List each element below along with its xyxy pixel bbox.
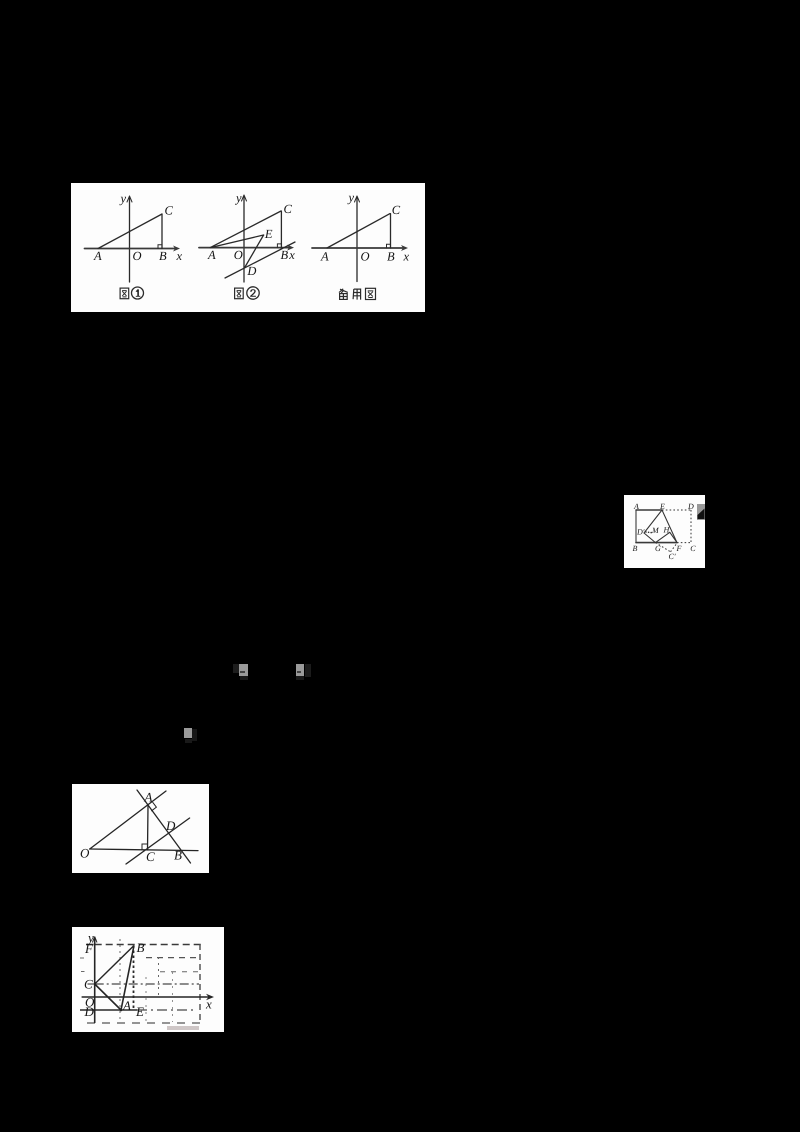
segment E-D' [644, 510, 662, 533]
svg-text:B: B [633, 544, 638, 553]
svg-text:B: B [174, 848, 182, 863]
svg-text:x: x [288, 248, 295, 262]
svg-text:y: y [347, 191, 355, 205]
svg-text:D′: D′ [636, 528, 645, 537]
fig3 segment CB [390, 214, 392, 248]
triangle CB [95, 946, 134, 985]
svg-text:C: C [284, 202, 293, 216]
svg-text:O: O [234, 248, 243, 262]
gray watermark bar [167, 1026, 199, 1030]
vertical A-C [147, 806, 150, 850]
fig2 segment AE [210, 235, 263, 248]
svg-text:x: x [176, 249, 183, 263]
svg-text:D: D [84, 1004, 95, 1019]
fig3 right angle at B [387, 244, 391, 248]
dashed DC [690, 510, 692, 543]
edge AE (top, solid) [636, 509, 662, 511]
svg-text:A: A [207, 248, 216, 262]
svg-text:y: y [234, 191, 242, 205]
triangle BA [121, 946, 134, 1011]
svg-text:O: O [133, 249, 142, 263]
dashed G-C' [656, 543, 671, 552]
fig2 segment CB [280, 211, 282, 248]
dots near M [645, 531, 647, 533]
svg-text:B: B [159, 249, 167, 263]
svg-text:y: y [119, 192, 127, 206]
fig2 caption 图② [235, 288, 244, 299]
svg-text:D: D [246, 264, 256, 278]
svg-text:A: A [93, 249, 102, 263]
svg-text:O: O [80, 845, 90, 860]
fig1 y-axis [129, 198, 131, 282]
fig2 segment AC [210, 211, 281, 248]
segment EF [662, 510, 677, 543]
svg-text:A: A [633, 502, 639, 511]
fig3 caption 备用图 [339, 289, 348, 300]
segment D'-G [644, 533, 656, 543]
svg-text:A: A [122, 998, 131, 1013]
dashed vertical B-E [133, 946, 135, 1011]
svg-text:M: M [651, 526, 660, 535]
fig3 segment AC [327, 214, 390, 248]
grid: vertical col x48 [119, 939, 121, 1022]
svg-text:G: G [655, 544, 661, 553]
fig2 x-axis [199, 247, 291, 249]
svg-text:A: A [144, 790, 153, 805]
figure box 2: rectangle fold diagram [624, 495, 705, 568]
fig3 y-axis [356, 198, 358, 282]
fig1 right angle at B [158, 245, 162, 249]
grid: left margin specks [80, 958, 85, 972]
triangle CA [95, 984, 121, 1010]
fig1 segment AC [98, 214, 162, 249]
svg-text:D: D [687, 502, 694, 511]
grid: row y44 [160, 971, 200, 973]
svg-text:B: B [137, 940, 145, 955]
segment GH [656, 532, 670, 542]
grid: bottom row [87, 1022, 200, 1024]
svg-text:C: C [690, 544, 696, 553]
horizontal line O-C-B [90, 849, 198, 851]
svg-text:F: F [84, 941, 94, 956]
grid: C row left tick [88, 983, 95, 985]
small gray fraction patch 3 [184, 728, 192, 738]
fig1 caption 图① [120, 288, 129, 299]
svg-text:A: A [320, 250, 329, 264]
line through A, D, B [137, 790, 191, 863]
fig2 segment ED [245, 235, 264, 267]
grid: D row [80, 1009, 137, 1011]
fig1 segment CB [161, 214, 163, 249]
grid: vertical col x100 [172, 972, 174, 1022]
grid: vertical col x86 [158, 957, 160, 997]
line through C and D [126, 818, 190, 864]
edge AB (left, solid) [635, 510, 637, 543]
figure box 4: grid coordinate diagram [72, 927, 224, 1032]
svg-text:C′: C′ [669, 552, 676, 561]
segment HF [670, 532, 677, 542]
small gray fraction patch 1 [239, 664, 248, 676]
grid: row y30 [146, 957, 200, 959]
svg-text:B: B [387, 250, 395, 264]
svg-text:x: x [205, 997, 212, 1012]
figure box 1: three coordinate diagrams [71, 183, 425, 312]
svg-text:C: C [84, 977, 93, 992]
fig2 right angle at B [277, 244, 281, 248]
svg-text:F: F [676, 544, 682, 553]
svg-text:C: C [392, 203, 401, 217]
svg-text:x: x [403, 250, 410, 264]
point dot at A [120, 1009, 123, 1012]
grid: F row left tick [86, 944, 94, 946]
small gray fraction patch 2 [296, 664, 304, 676]
svg-text:O: O [361, 250, 370, 264]
dashed ED [662, 509, 691, 511]
y-axis [94, 938, 96, 1023]
grid: C row dash-dot [95, 983, 199, 985]
figure box 3: O A C D B diagram [72, 784, 209, 873]
grid: F row dashed [95, 944, 201, 946]
svg-text:B: B [281, 248, 289, 262]
fig1 x-axis [85, 248, 178, 250]
fig3 x-axis [312, 247, 405, 249]
fig2 line through D and B [225, 242, 295, 278]
svg-text:E: E [659, 502, 665, 511]
svg-text:C: C [146, 849, 155, 864]
svg-text:E: E [264, 227, 273, 241]
fig2 y-axis [243, 197, 245, 282]
right angle at C [142, 844, 148, 850]
x-axis [82, 996, 211, 998]
gray icon at right edge of box 2 [697, 504, 705, 520]
dashed FC [677, 542, 691, 544]
edge BF (bottom, solid) [636, 542, 677, 544]
right angle at A [152, 802, 157, 810]
svg-text:E: E [135, 1004, 144, 1019]
dashed C'-F [671, 543, 678, 552]
line O-A extended [90, 791, 166, 849]
svg-text:D: D [165, 818, 176, 833]
grid: vertical col x74 [145, 977, 147, 1022]
grid: vertical col right edge [199, 944, 201, 1023]
svg-text:C: C [165, 204, 174, 218]
